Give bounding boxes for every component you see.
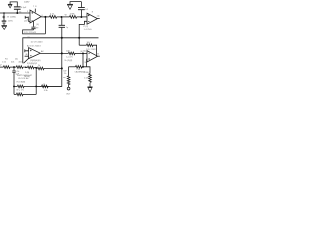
svg-text:(6): (6) <box>80 51 83 53</box>
svg-text:BD(M): BD(M) <box>24 76 30 78</box>
svg-text:1kHz: 1kHz <box>8 20 13 22</box>
svg-text:1µ: 1µ <box>66 27 68 29</box>
svg-text:1V 1/2(M): 1V 1/2(M) <box>7 17 16 19</box>
svg-text:(4): (4) <box>43 84 46 86</box>
svg-text:1+1.2%G: 1+1.2%G <box>84 29 92 31</box>
svg-text:CLOCK Bd: CLOCK Bd <box>18 78 29 80</box>
svg-text:3(2)(B)(9)2: 3(2)(B)(9)2 <box>27 63 38 65</box>
svg-text:10k*: 10k* <box>66 50 70 52</box>
svg-text:0.1µF: 0.1µF <box>21 7 27 9</box>
svg-text:6: 6 <box>42 15 43 17</box>
svg-text:R9: R9 <box>28 37 30 39</box>
svg-text:(B): (B) <box>25 54 28 56</box>
svg-text:4x: 4x <box>91 45 93 47</box>
svg-text:(2): (2) <box>24 20 27 22</box>
svg-text:1%: 1% <box>64 73 67 75</box>
svg-text:W = 1%: W = 1% <box>16 90 23 92</box>
svg-text:OUT: OUT <box>66 93 71 95</box>
svg-text:2x(M)*: 2x(M)* <box>24 1 30 3</box>
svg-text:(4): (4) <box>36 24 39 26</box>
svg-text:(1): (1) <box>97 15 100 17</box>
svg-text:1/2 LTC1043: 1/2 LTC1043 <box>24 32 37 34</box>
svg-text:w 7°: w 7° <box>18 92 22 94</box>
svg-text:1+0.1%: 1+0.1% <box>66 56 73 58</box>
svg-text:IN 1/8(M): IN 1/8(M) <box>17 82 26 84</box>
svg-text:1/2 LTC1043: 1/2 LTC1043 <box>31 42 44 44</box>
svg-text:P (2): P (2) <box>84 26 89 28</box>
svg-text:(2)(B)(4)(6): (2)(B)(4)(6) <box>30 60 41 62</box>
svg-text:40k*: 40k* <box>18 62 22 64</box>
svg-text:W: W <box>65 14 67 16</box>
svg-text:3: 3 <box>27 11 28 13</box>
svg-text:(6): (6) <box>15 58 18 60</box>
svg-text:1k (2)(4): 1k (2)(4) <box>64 60 72 62</box>
svg-text:A2 1/2 LT1013: A2 1/2 LT1013 <box>27 44 41 47</box>
svg-text:4.99k*: 4.99k* <box>84 72 90 74</box>
svg-text:2 (B): 2 (B) <box>25 72 29 74</box>
svg-text:2: 2 <box>27 19 28 21</box>
svg-text:1/2 LT1013: 1/2 LT1013 <box>86 49 97 51</box>
svg-text:(7): (7) <box>97 54 100 56</box>
